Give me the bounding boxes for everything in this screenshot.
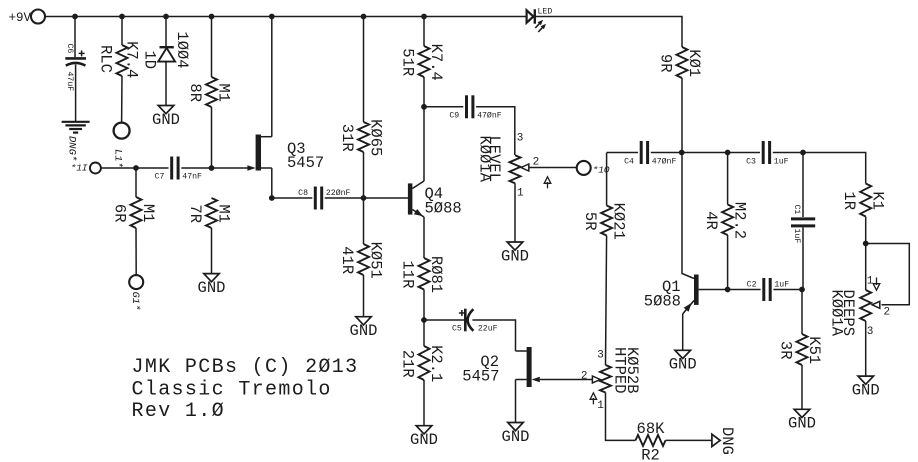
- svg-text:KØ51: KØ51: [367, 242, 385, 279]
- svg-text:1uF: 1uF: [774, 281, 789, 290]
- wire C8 to Q4 base: [325, 197, 408, 199]
- svg-text:1R: 1R: [840, 191, 858, 210]
- resistor R4 2.2M: [702, 202, 749, 239]
- svg-text:1uF: 1uF: [792, 229, 801, 244]
- svg-text:C3: C3: [746, 158, 756, 167]
- transistor Q1 5088: [644, 275, 699, 314]
- junction: [863, 241, 869, 247]
- label CLR: [97, 45, 115, 73]
- svg-text:GND: GND: [788, 415, 816, 433]
- label DEPTH B250K: [611, 347, 642, 394]
- svg-text:LEVEL: LEVEL: [485, 136, 503, 183]
- wire Q1 base to C2: [699, 289, 761, 291]
- label *1I: [71, 163, 88, 174]
- wire R8 to input node: [211, 107, 213, 168]
- svg-text:5Ø88: 5Ø88: [644, 292, 681, 310]
- svg-text:M2.2: M2.2: [731, 202, 749, 239]
- wire R6 to terminal 1G: [135, 228, 137, 275]
- svg-text:GND: GND: [501, 247, 529, 265]
- wire Q3 source down: [271, 168, 273, 198]
- wire R4 to base node: [727, 235, 729, 290]
- svg-text:3: 3: [597, 350, 604, 362]
- junction: [725, 287, 731, 293]
- capacitor C4: [624, 141, 676, 167]
- wire C7 to gate node: [181, 167, 248, 169]
- svg-text:K1: K1: [869, 191, 887, 210]
- label *1L: [112, 149, 124, 168]
- label *1O: [593, 164, 610, 175]
- svg-text:DEEPS: DEEPS: [839, 290, 857, 337]
- resistor R11 180R: [399, 256, 446, 293]
- svg-text:1: 1: [867, 276, 874, 288]
- junction: [421, 14, 427, 20]
- svg-text:3R: 3R: [777, 341, 795, 360]
- wire C1 to R3 node: [802, 227, 803, 289]
- junction: [725, 150, 731, 156]
- svg-text:KØ65: KØ65: [367, 119, 385, 156]
- svg-text:8R: 8R: [186, 83, 204, 102]
- svg-text:6R: 6R: [111, 204, 129, 223]
- wire C9 to LEVEL pot: [476, 107, 515, 155]
- svg-text:C4: C4: [624, 158, 634, 167]
- svg-text:L1*: L1*: [112, 149, 124, 168]
- potentiometer DEPTH B250K: [600, 365, 611, 393]
- capacitor C3: [746, 141, 789, 167]
- wire C9 node to C9: [424, 106, 463, 108]
- wire loop to SPEED wiper: [866, 244, 910, 305]
- wire C8 node to R14: [363, 198, 365, 244]
- junction: [72, 14, 78, 20]
- svg-text:1D: 1D: [141, 51, 159, 70]
- wire +9V to R8: [211, 17, 213, 78]
- junction: [421, 104, 427, 110]
- capacitor C9: [449, 95, 501, 120]
- junction: [269, 195, 275, 201]
- svg-text:22ØnF: 22ØnF: [326, 188, 351, 198]
- wire Q1 emitter to GND: [682, 314, 684, 350]
- wire +9V rail to LED anode: [46, 16, 527, 18]
- wire Q3 source to C8: [272, 197, 313, 199]
- svg-text:RØ81: RØ81: [427, 256, 445, 293]
- svg-text:M1: M1: [139, 204, 157, 223]
- terminal +9V: [31, 10, 45, 24]
- svg-text:K7.4: K7.4: [427, 44, 445, 81]
- wire +9V to C6: [74, 17, 76, 58]
- svg-text:JMK PCBs (C) 2Ø13: JMK PCBs (C) 2Ø13: [132, 356, 359, 379]
- svg-text:2: 2: [884, 307, 891, 319]
- wire R14 to GND: [363, 275, 365, 317]
- ground GND (R14): [350, 317, 378, 340]
- svg-text:GND: GND: [410, 431, 438, 449]
- ground *GND earth symbol: [62, 122, 90, 161]
- resistor R9 10K: [657, 47, 704, 78]
- transistor Q3 5457: [247, 135, 324, 172]
- svg-text:5R: 5R: [581, 212, 599, 231]
- svg-text:Rev 1.Ø: Rev 1.Ø: [132, 400, 225, 423]
- wire R13 to C8 node: [363, 152, 365, 198]
- wire R9 to trunk node: [681, 78, 683, 153]
- svg-text:1: 1: [597, 400, 604, 412]
- svg-text:1ØØ4: 1ØØ4: [173, 31, 191, 68]
- ground GND (SPEED): [852, 376, 880, 399]
- wire trunk to C3: [682, 152, 760, 154]
- svg-text:1: 1: [517, 188, 524, 200]
- label +9V: [9, 11, 32, 25]
- svg-text:M1: M1: [215, 83, 233, 102]
- svg-text:GND: GND: [198, 279, 226, 297]
- wire C6 to ground: [75, 65, 77, 122]
- svg-text:C1: C1: [792, 205, 801, 215]
- label *1G: [129, 292, 141, 311]
- wire SPEED pin3 to GND: [865, 321, 867, 376]
- svg-text:5457: 5457: [462, 368, 499, 386]
- svg-text:3: 3: [517, 132, 524, 144]
- ground GND (Q2): [502, 423, 530, 446]
- svg-text:1uF: 1uF: [774, 158, 789, 167]
- wire rail to R13: [363, 17, 365, 123]
- wire Q2 gate to DEPTH wiper: [540, 379, 592, 381]
- svg-text:C8: C8: [298, 189, 308, 198]
- wire corner to C4: [607, 152, 638, 154]
- junction: [209, 165, 215, 171]
- wire R5 to DEPTH pin3: [606, 236, 607, 366]
- resistor R3 15K: [777, 334, 824, 365]
- resistor R7 1M: [186, 198, 233, 228]
- wire R3 to GND: [801, 365, 803, 409]
- svg-text:GND: GND: [350, 322, 378, 340]
- ground GND (R2): [712, 427, 736, 455]
- svg-text:51R: 51R: [399, 48, 417, 76]
- ground GND (R3): [788, 409, 816, 432]
- junction: [361, 195, 367, 201]
- capacitor C5 22uF: [452, 309, 498, 334]
- svg-text:11R: 11R: [399, 261, 417, 289]
- ground GND (R7): [198, 274, 226, 297]
- resistor CLR 4.7K: [117, 45, 128, 76]
- wire D1 to GND: [165, 62, 167, 106]
- resistor R2 68K: [636, 420, 666, 462]
- wire R11 to C5 node: [423, 290, 425, 321]
- wire LEVEL wiper to terminal 1O: [529, 167, 577, 169]
- capacitor C2: [747, 278, 790, 301]
- wire Q3 drain to rail: [271, 17, 273, 137]
- wire R1 to node: [865, 217, 867, 244]
- svg-text:+9V: +9V: [9, 11, 32, 25]
- wire C9 node to Q4 collector: [423, 107, 425, 181]
- svg-text:M1: M1: [215, 204, 233, 223]
- junction: [163, 14, 169, 20]
- svg-text:*1I: *1I: [71, 163, 88, 174]
- DEPTH wiper: [581, 350, 604, 413]
- wire C3 to R1 corner: [773, 153, 866, 184]
- svg-text:7R: 7R: [186, 204, 204, 223]
- terminal *1I: [90, 163, 101, 174]
- transistor Q2 5457: [462, 347, 540, 387]
- svg-text:47ØnF: 47ØnF: [652, 157, 677, 167]
- junction: [679, 150, 685, 156]
- potentiometer SPEED A100K: [860, 290, 871, 321]
- junction: [800, 150, 806, 156]
- wire trunk to Q1 collector: [682, 153, 694, 279]
- wire DEPTH pin1 to R2: [606, 393, 636, 441]
- title text: [132, 356, 359, 423]
- svg-text:KØ1: KØ1: [685, 49, 703, 77]
- SPEED wiper: [867, 276, 890, 339]
- svg-text:GND: GND: [152, 111, 180, 129]
- svg-text:C9: C9: [449, 112, 459, 121]
- wire C4 corner to R5: [606, 153, 608, 206]
- wire C2 to R3 node: [773, 289, 802, 291]
- junction: [799, 287, 805, 293]
- transistor Q4 5088: [408, 181, 462, 218]
- diode D1 4001: [141, 31, 192, 69]
- ground GND (D1): [152, 106, 180, 129]
- potentiometer LEVEL A100K: [510, 155, 521, 183]
- resistor R6 1M: [111, 197, 158, 228]
- svg-text:DNG: DNG: [718, 427, 736, 455]
- wire rail to R15: [423, 17, 425, 47]
- wire R15 to C9 node: [423, 77, 425, 107]
- svg-text:47uF: 47uF: [65, 72, 74, 92]
- svg-text:2: 2: [581, 370, 588, 382]
- wire R7 to GND: [211, 228, 213, 274]
- svg-text:C7: C7: [155, 173, 165, 182]
- svg-text:21R: 21R: [399, 350, 417, 378]
- resistor R13 560K: [338, 119, 385, 156]
- resistor R12 1.2K: [399, 345, 446, 382]
- svg-text:RLC: RLC: [97, 45, 115, 73]
- svg-text:47ØnF: 47ØnF: [477, 111, 502, 121]
- svg-text:4R: 4R: [702, 211, 720, 230]
- svg-text:GND: GND: [852, 382, 880, 400]
- svg-text:31R: 31R: [338, 124, 356, 152]
- capacitor C8: [298, 187, 350, 210]
- ground GND (R12): [410, 426, 438, 449]
- svg-text:LED: LED: [538, 8, 553, 17]
- resistor R1 1K: [840, 184, 887, 217]
- svg-text:68K: 68K: [637, 420, 666, 438]
- wire node to R3: [801, 290, 803, 335]
- wire C5 node to C5: [424, 319, 464, 321]
- svg-text:GND: GND: [669, 356, 697, 374]
- wire LEVEL pin1 to GND: [514, 183, 516, 242]
- wire SPEED pin1: [865, 244, 867, 291]
- junction: [119, 14, 125, 20]
- svg-text:K51: K51: [805, 336, 823, 364]
- svg-text:2: 2: [533, 156, 540, 168]
- svg-text:41R: 41R: [338, 246, 356, 274]
- svg-text:Classic Tremolo: Classic Tremolo: [132, 379, 332, 402]
- wire C5 to Q2 drain: [472, 320, 515, 351]
- svg-text:DNG*: DNG*: [66, 136, 78, 161]
- wire R12 to GND: [423, 380, 425, 426]
- wire trunk to R4: [727, 153, 729, 205]
- capacitor C7: [155, 157, 202, 182]
- resistor R15 4.7K: [399, 44, 446, 81]
- wire input to C7: [101, 167, 169, 169]
- resistor R14 150K: [338, 242, 385, 279]
- svg-text:C2: C2: [747, 281, 757, 290]
- capacitor C1 1uF: [791, 205, 815, 244]
- label A100K LEVEL: [475, 136, 503, 183]
- junction: [361, 14, 367, 20]
- svg-text:K7.4: K7.4: [123, 41, 141, 78]
- ground GND (LEVEL): [501, 242, 529, 265]
- wire Q2 source to GND: [515, 380, 517, 423]
- svg-text:GND: GND: [502, 428, 530, 446]
- label 4.7K: [123, 41, 141, 78]
- svg-text:22uF: 22uF: [478, 325, 498, 334]
- capacitor C6: [65, 44, 86, 92]
- wire LED cathode to R9: [536, 17, 683, 48]
- ground GND (Q1): [669, 350, 697, 373]
- svg-text:K2.1: K2.1: [427, 345, 445, 382]
- svg-text:3: 3: [867, 326, 874, 338]
- wire R2 to GND: [666, 439, 712, 441]
- svg-text:9R: 9R: [657, 54, 675, 73]
- svg-text:KØ52B: KØ52B: [623, 347, 641, 394]
- junction: [209, 14, 215, 20]
- svg-text:KØ21: KØ21: [610, 203, 628, 240]
- label A100K SPEED: [828, 290, 857, 337]
- wire C4 to trunk: [651, 152, 682, 154]
- terminal *1O: [577, 161, 591, 175]
- wire CLR to terminal 1L: [121, 76, 123, 123]
- wire +9V to D1: [165, 17, 167, 47]
- wire node to C1: [802, 153, 804, 218]
- svg-text:5Ø88: 5Ø88: [425, 200, 462, 218]
- wire input node to R6: [135, 168, 137, 197]
- svg-text:C6: C6: [65, 44, 74, 54]
- wire Q4 emitter to R11: [423, 217, 425, 258]
- resistor R5 120K: [581, 203, 628, 240]
- junction: [421, 317, 427, 323]
- terminal *1G: [129, 275, 143, 289]
- svg-text:47nF: 47nF: [182, 173, 202, 182]
- terminal *1L: [114, 123, 130, 139]
- LED: [527, 8, 553, 33]
- junction: [269, 14, 275, 20]
- resistor R8 1M: [186, 77, 233, 107]
- junction: [133, 165, 139, 171]
- svg-text:R2: R2: [641, 446, 660, 462]
- svg-text:5457: 5457: [287, 154, 324, 172]
- wire +9V to CLR: [121, 17, 123, 46]
- svg-text:G1*: G1*: [129, 292, 141, 311]
- wire C5 node to R12: [423, 320, 425, 346]
- svg-text:C5: C5: [452, 325, 462, 334]
- LEVEL wiper: [517, 132, 551, 199]
